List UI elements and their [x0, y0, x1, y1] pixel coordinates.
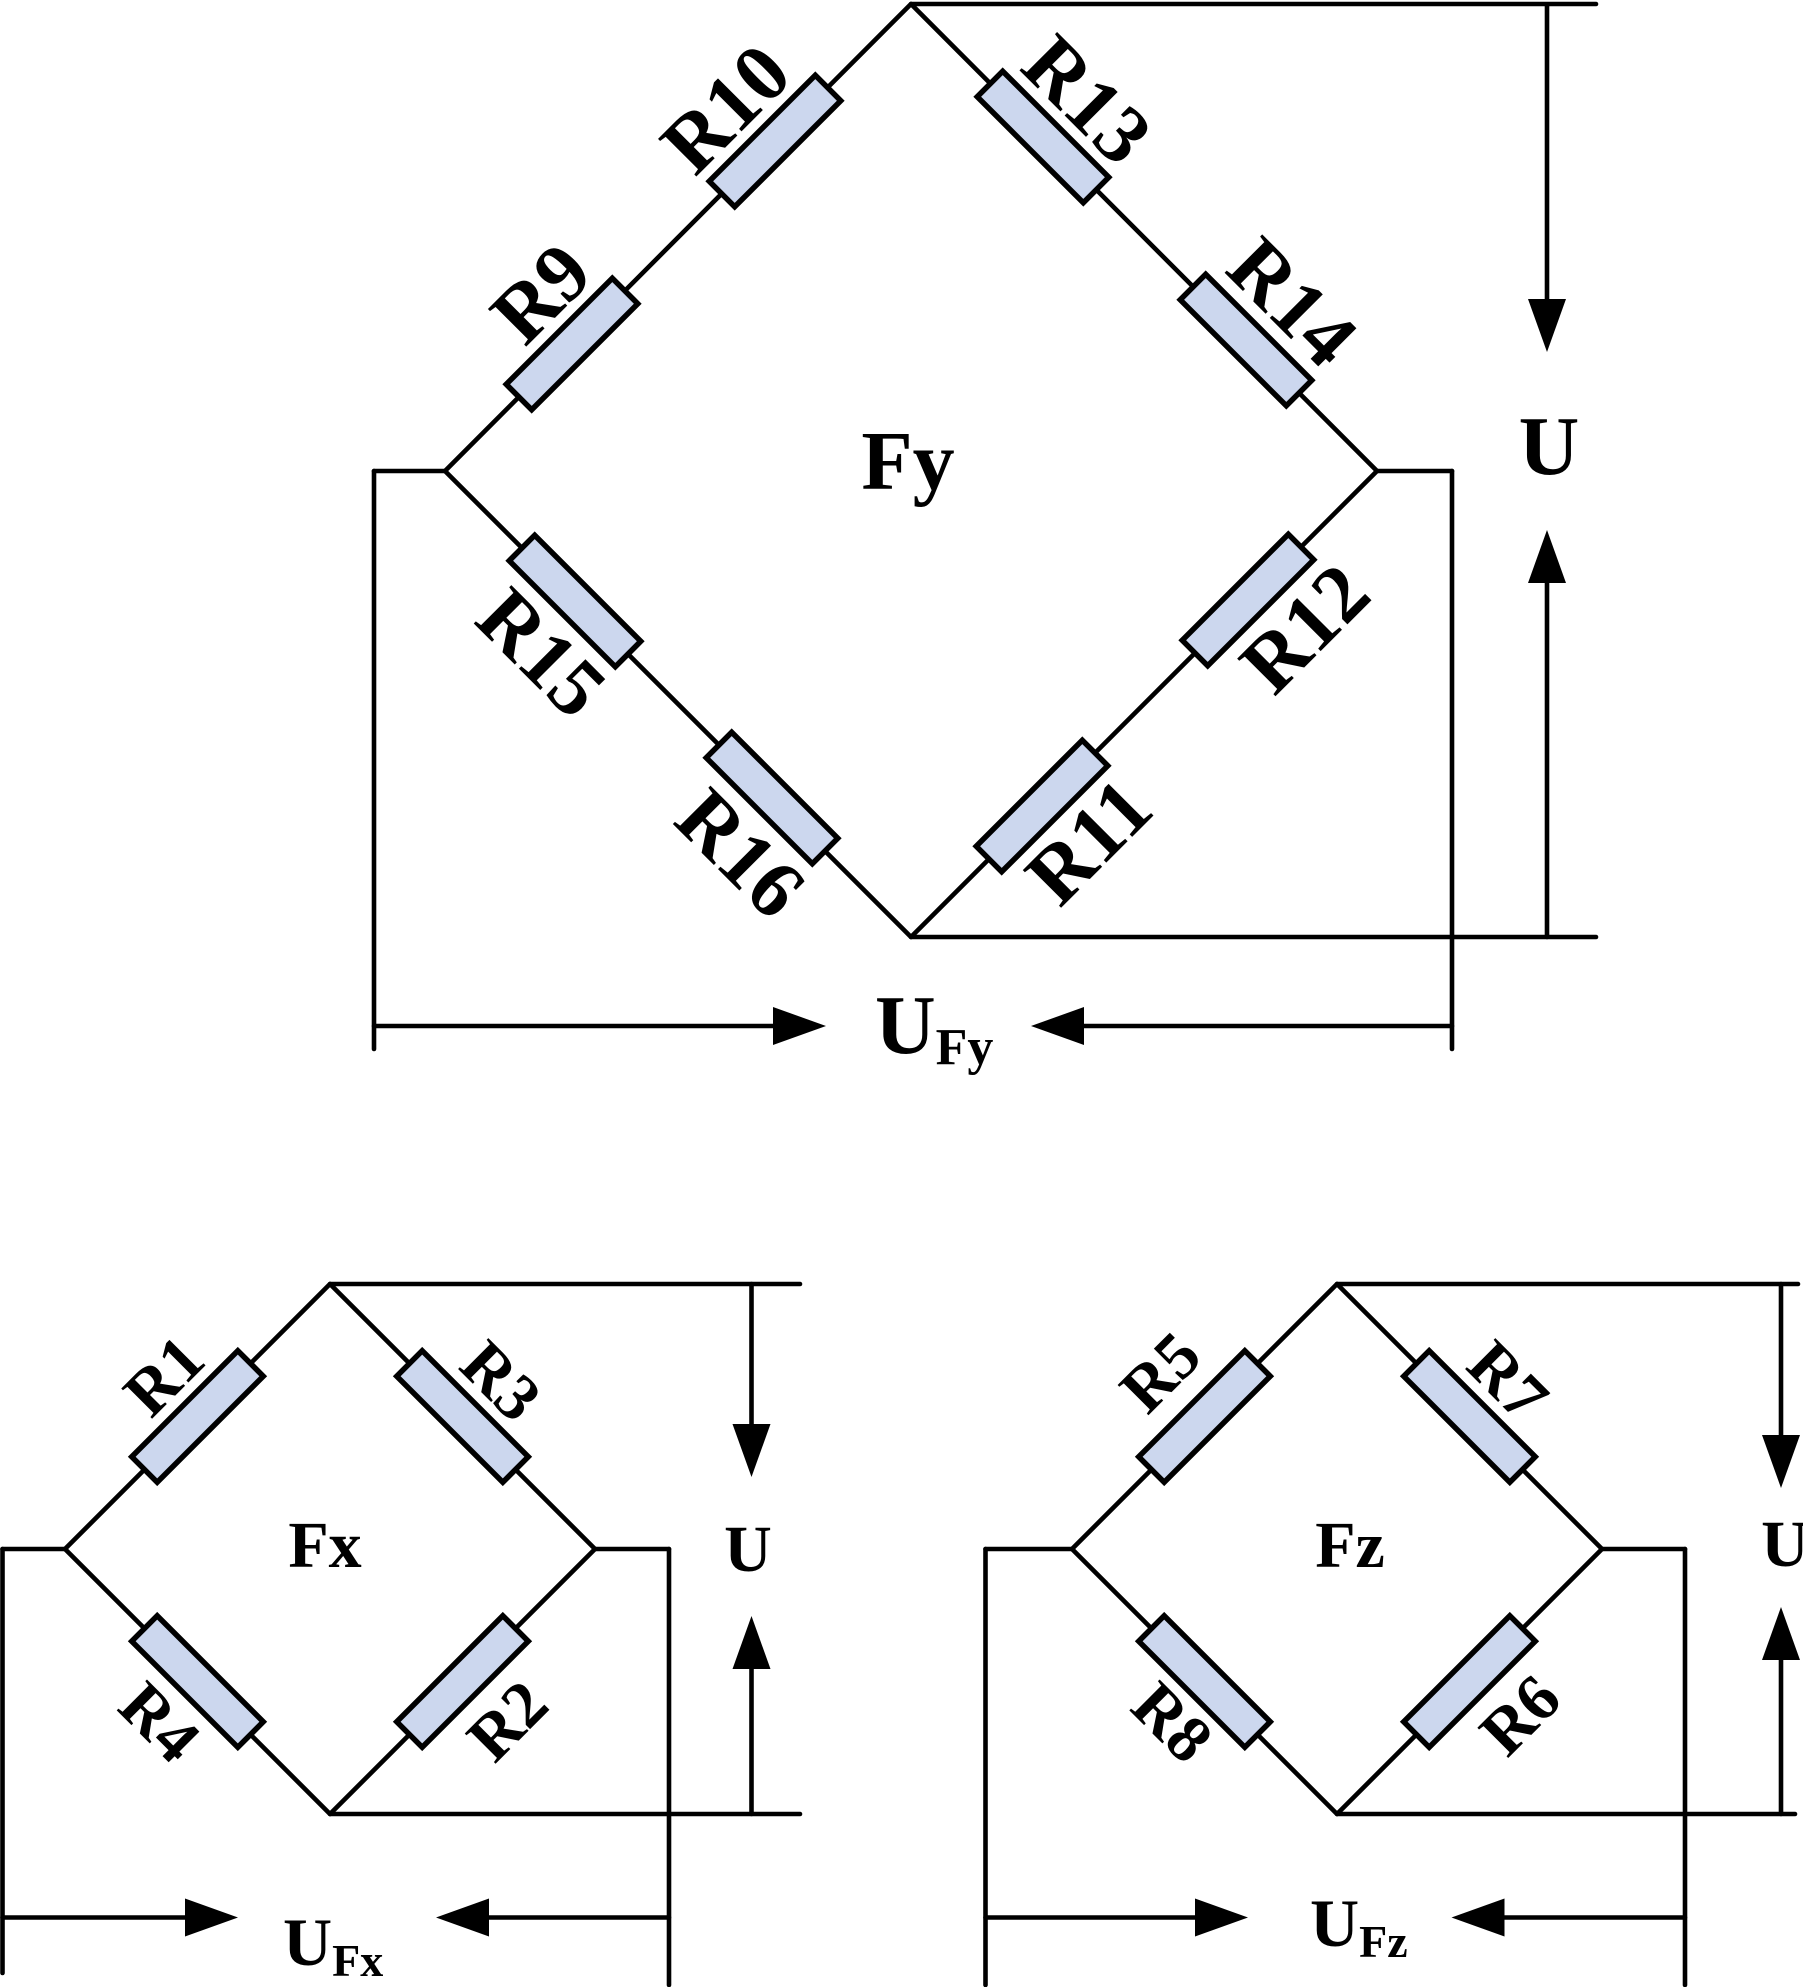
wire Fz left vertical — [983, 1549, 988, 1985]
resistor R12 — [1182, 534, 1314, 666]
svg-text:R10: R10 — [643, 26, 807, 190]
wire Fx bottom rail — [330, 1812, 800, 1817]
svg-text:R12: R12 — [1222, 546, 1386, 710]
wire Fy arm bottom-right — [911, 471, 1377, 937]
svg-text:UFy: UFy — [875, 979, 993, 1076]
wire Fx arm bottom-right — [330, 1549, 595, 1814]
wire Fx left vertical — [0, 1549, 5, 1973]
resistor R9 — [506, 278, 638, 410]
wire Fx right stub — [595, 1547, 669, 1552]
resistor R3 — [397, 1351, 529, 1483]
label R5 — [1106, 1318, 1215, 1427]
label R7 — [1453, 1327, 1562, 1436]
svg-text:U: U — [1761, 1508, 1803, 1581]
wire Fy arm top-right (node T to node B') — [911, 4, 1377, 471]
svg-text:UFx: UFx — [283, 1904, 383, 1986]
wire Fx left stub — [3, 1547, 66, 1552]
wire Fy top rail — [911, 2, 1596, 7]
label R16 — [659, 771, 823, 935]
svg-text:U: U — [724, 1513, 772, 1586]
arrow U supply down (Fz) — [1779, 1284, 1784, 1435]
wire Fy arm left-top (node A to node T) — [445, 4, 911, 471]
label R11 — [1008, 761, 1169, 922]
arrow UFz left — [1505, 1915, 1686, 1920]
label R4 — [105, 1668, 214, 1777]
resistor R13 — [977, 71, 1109, 203]
wire Fz right vertical — [1683, 1549, 1688, 1985]
resistor R2 — [397, 1616, 529, 1748]
label R6 — [1466, 1661, 1575, 1770]
arrow UFz right — [986, 1915, 1196, 1920]
label R15 — [460, 571, 624, 735]
wire Fz top rail — [1337, 1282, 1798, 1287]
arrow U supply up (Fx) — [749, 1669, 754, 1814]
label R1 — [110, 1322, 219, 1431]
wire Fy right vertical — [1450, 471, 1455, 1049]
wire Fy left vertical — [372, 471, 377, 1049]
resistor R1 — [132, 1351, 264, 1483]
resistor R8 — [1139, 1616, 1271, 1748]
resistor R5 — [1139, 1351, 1271, 1483]
arrow U supply up (Fz) — [1779, 1660, 1784, 1814]
svg-text:R13: R13 — [1005, 17, 1169, 181]
resistor R14 — [1180, 274, 1312, 406]
wire Fz arm left-bottom — [1072, 1549, 1337, 1814]
resistor R7 — [1404, 1351, 1536, 1483]
arrow U supply down (Fy) — [1545, 6, 1550, 299]
wire Fz bottom rail — [1337, 1812, 1795, 1817]
svg-text:UFz: UFz — [1310, 1885, 1408, 1967]
wire Fx top rail — [330, 1282, 800, 1287]
svg-text:U: U — [1519, 400, 1580, 493]
wire Fx arm left-top — [65, 1284, 330, 1549]
svg-text:Fx: Fx — [288, 1509, 361, 1582]
svg-text:Fz: Fz — [1315, 1509, 1385, 1582]
label R13 — [1005, 17, 1169, 181]
arrow U supply down (Fx) — [749, 1284, 754, 1424]
svg-text:R11: R11 — [1008, 761, 1169, 922]
resistor R10 — [709, 75, 841, 207]
label R12 — [1222, 546, 1386, 710]
wire Fz arm top-right — [1337, 1284, 1602, 1549]
label R8 — [1118, 1668, 1227, 1777]
arrow UFy left — [1084, 1024, 1452, 1029]
label R14 — [1211, 220, 1375, 384]
arrow U supply up (Fy) — [1545, 583, 1550, 937]
wire Fz left stub — [986, 1547, 1073, 1552]
wire Fx arm left-bottom — [65, 1549, 330, 1814]
resistor R6 — [1404, 1616, 1536, 1748]
wire Fz right stub — [1602, 1547, 1685, 1552]
wire Fy bottom rail — [911, 935, 1596, 940]
svg-text:R15: R15 — [460, 571, 624, 735]
arrow UFx right — [3, 1915, 186, 1920]
wire Fx right vertical — [667, 1549, 672, 1985]
svg-text:R14: R14 — [1211, 220, 1375, 384]
wire Fy left stub — [374, 469, 445, 474]
wire Fz arm bottom-right — [1337, 1549, 1602, 1814]
resistor R11 — [976, 740, 1108, 872]
arrow UFx left — [489, 1915, 669, 1920]
wire Fy arm left-bottom — [445, 471, 911, 937]
label R2 — [453, 1667, 562, 1776]
wire Fy right stub — [1377, 469, 1452, 474]
label R10 — [643, 26, 807, 190]
resistor R16 — [706, 732, 838, 864]
arrow UFy right — [374, 1024, 773, 1029]
label R9 — [473, 225, 608, 360]
resistor R4 — [132, 1616, 264, 1748]
wire Fz arm left-top — [1072, 1284, 1337, 1549]
label R3 — [446, 1327, 555, 1436]
wire Fx arm top-right — [330, 1284, 595, 1549]
resistor R15 — [509, 535, 641, 667]
svg-text:Fy: Fy — [861, 415, 954, 508]
